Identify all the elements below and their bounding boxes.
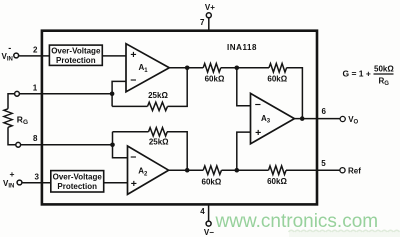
svg-text:VO: VO <box>348 115 358 126</box>
terminal pin8 circle <box>16 142 21 147</box>
svg-text:25kΩ: 25kΩ <box>149 138 169 147</box>
wire A2 output row bottom 60k chain <box>169 169 317 171</box>
wire OVP2 to A2 + <box>104 182 128 184</box>
terminal pin1 circle <box>15 91 20 96</box>
wire pin1 <box>19 93 112 95</box>
junction dot A3 plus node <box>235 168 240 173</box>
wire 25k feedback row A1 <box>112 68 187 107</box>
svg-text:−: − <box>255 99 261 111</box>
wire A3 output to pin6 <box>294 118 340 120</box>
gain equation <box>343 65 395 88</box>
svg-text:25kΩ: 25kΩ <box>148 91 168 100</box>
junction dot A3 minus node <box>235 66 240 71</box>
resistor 60k bottom right <box>269 166 287 175</box>
resistor RG <box>4 109 12 127</box>
svg-text:50kΩ: 50kΩ <box>374 65 394 74</box>
over-voltage protection box 1 <box>49 45 102 65</box>
svg-text:+: + <box>131 178 137 190</box>
terminal Ref circle pin 5 <box>340 168 345 173</box>
svg-text:60kΩ: 60kΩ <box>267 177 287 186</box>
wire A3 minus input <box>237 68 251 106</box>
svg-text:+: + <box>255 127 261 139</box>
svg-text:2: 2 <box>33 46 38 55</box>
wire pin5 to Ref <box>317 169 340 171</box>
svg-text:8: 8 <box>33 134 38 143</box>
svg-text:6: 6 <box>322 107 327 116</box>
svg-text:60kΩ: 60kΩ <box>205 75 225 84</box>
svg-text:Protection: Protection <box>56 56 96 65</box>
watermark band bottom right <box>289 231 400 238</box>
svg-text:G = 1 +: G = 1 + <box>343 69 371 79</box>
svg-text:1: 1 <box>33 84 38 93</box>
wire OVP1 to A1 + <box>102 55 126 57</box>
svg-text:+: + <box>130 49 136 61</box>
wire pin3 input <box>22 182 51 184</box>
junction dot pin8 node <box>110 143 115 148</box>
over-voltage protection box 2 <box>51 171 104 192</box>
svg-text:Over-Voltage: Over-Voltage <box>53 172 103 181</box>
wire pin8 <box>21 144 113 146</box>
svg-text:Protection: Protection <box>57 182 97 191</box>
svg-text:60kΩ: 60kΩ <box>202 177 222 186</box>
junction dot pin1 node <box>110 92 115 97</box>
svg-text:RG: RG <box>379 77 390 88</box>
wire A3 plus input <box>237 132 251 170</box>
svg-text:www.cntronics.com: www.cntronics.com <box>215 211 379 232</box>
resistor 25k A1 <box>148 102 168 110</box>
svg-text:V−: V− <box>204 228 214 237</box>
svg-text:+: + <box>10 169 15 179</box>
op-amp A1 <box>126 44 169 92</box>
svg-text:−: − <box>130 74 136 86</box>
resistor 60k top right <box>269 64 287 73</box>
svg-text:RG: RG <box>17 114 28 126</box>
svg-text:3: 3 <box>35 172 40 181</box>
wire A1 minus input with feedback tap <box>112 81 126 106</box>
resistor 25k A2 <box>149 128 168 136</box>
wire pin2 input <box>19 55 50 57</box>
svg-text:5: 5 <box>321 159 326 168</box>
terminal Vo circle pin 6 <box>340 116 345 121</box>
terminal V- circle pin 4 <box>206 221 211 226</box>
external RG branch wires <box>8 94 16 145</box>
svg-text:60kΩ: 60kΩ <box>267 75 287 84</box>
junction dot A3 output feedback <box>300 116 305 121</box>
terminal V- wire <box>208 204 210 221</box>
svg-text:4: 4 <box>200 207 205 216</box>
svg-text:7: 7 <box>200 18 205 27</box>
svg-text:Ref: Ref <box>348 166 361 175</box>
wire A1 output row top 60k chain <box>169 68 302 119</box>
svg-text:INA118: INA118 <box>227 43 257 52</box>
resistor 60k bottom left <box>203 166 221 175</box>
junction dot A1 output <box>185 66 190 71</box>
terminal Vin- circle pin 2 <box>14 53 19 58</box>
svg-text:V+: V+ <box>205 3 215 12</box>
svg-text:-: - <box>8 43 11 53</box>
terminal V+ wire <box>208 18 210 31</box>
wire A2 minus input with feedback tap <box>113 132 128 158</box>
terminal Vin+ circle pin 3 <box>17 180 22 185</box>
IC boundary box INA118 <box>42 31 317 205</box>
op-amp A3 <box>251 93 295 143</box>
wire 25k feedback row A2 <box>113 132 188 170</box>
junction dot A2 output <box>185 168 190 173</box>
svg-text:Over-Voltage: Over-Voltage <box>51 46 101 55</box>
svg-text:VIN: VIN <box>2 52 13 63</box>
svg-text:VIN: VIN <box>3 179 14 190</box>
op-amp A2 <box>128 146 169 194</box>
resistor 60k top left <box>203 64 221 73</box>
terminal V+ circle pin 7 <box>206 13 211 18</box>
svg-text:−: − <box>130 152 136 164</box>
